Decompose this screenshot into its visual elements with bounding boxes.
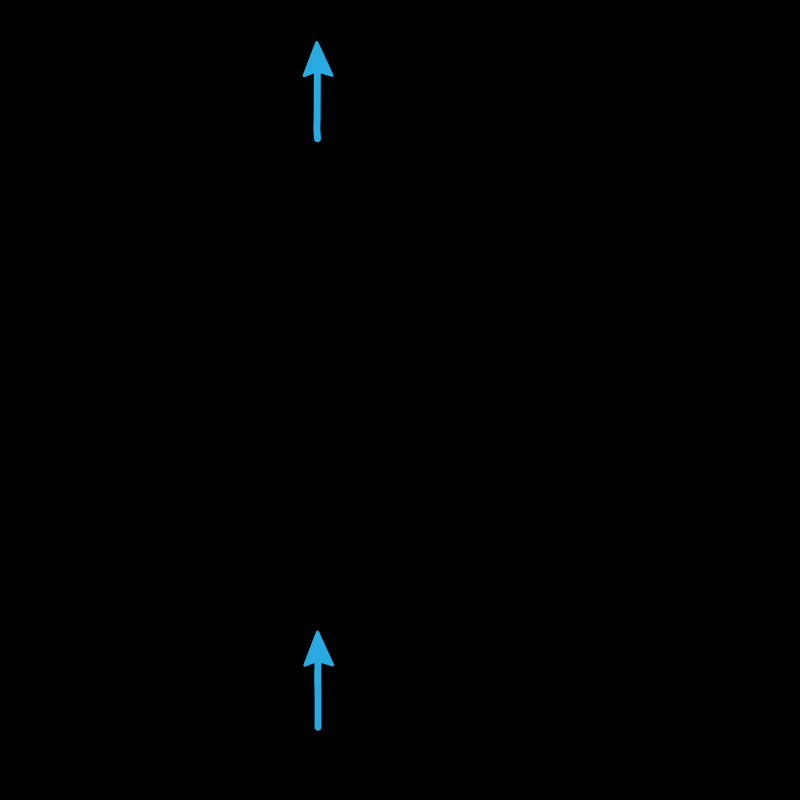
current arrow I2 (bottom, pointing up): arrowhead [305,632,333,727]
current arrow I1 (top, pointing up): arrowhead [304,43,332,139]
current arrow I2 shaft [314,662,321,728]
current arrow I1 shaft [313,72,321,139]
